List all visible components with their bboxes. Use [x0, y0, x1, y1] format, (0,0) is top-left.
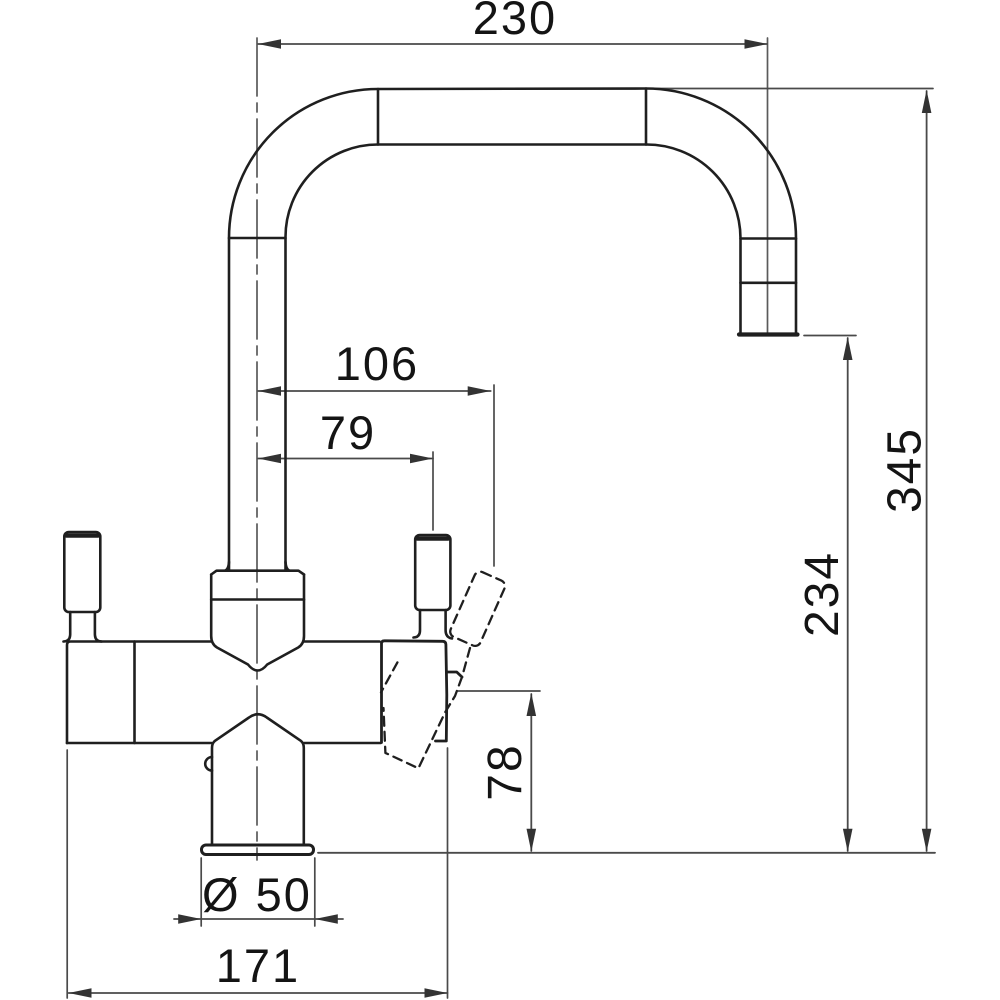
left handle knob [64, 532, 102, 642]
dimension 106 extension [493, 385, 495, 566]
dimension 78 line [530, 694, 532, 851]
body bottom edge left [67, 742, 212, 745]
dimension 345 line [926, 91, 928, 851]
body top edge left [67, 642, 211, 744]
extension lines diameter 50 [200, 858, 202, 926]
dimension 78 arrows [527, 693, 537, 852]
dimension 106 arrows [258, 386, 491, 396]
dimension 171 arrows [69, 988, 448, 998]
collar [211, 562, 304, 671]
left handle stem [64, 612, 71, 642]
svg-text:79: 79 [320, 406, 376, 459]
svg-text:78: 78 [479, 743, 532, 800]
centerline spout / 230 right extension [767, 38, 769, 334]
collar mid line [211, 598, 304, 601]
base pin [205, 757, 212, 771]
lever solid [382, 641, 463, 743]
dimension 171 extension left [66, 750, 68, 998]
svg-text:230: 230 [473, 0, 557, 44]
right handle knob [414, 535, 453, 639]
joint line spout lower [741, 281, 797, 284]
svg-text:234: 234 [796, 551, 849, 637]
dimension 345 arrows [922, 90, 932, 852]
base flange [202, 845, 314, 855]
dimension 106 line [258, 390, 491, 392]
spout tube outline [229, 89, 796, 571]
pipe flare left [225, 562, 229, 571]
extension line 234 [804, 335, 856, 337]
lever phantom grip (dashed) [381, 570, 507, 769]
joint line spout upper [741, 237, 797, 240]
base cone and cylinder [202, 714, 314, 854]
joint line top left [377, 89, 380, 145]
svg-text:345: 345 [879, 427, 932, 513]
svg-text:Ø 50: Ø 50 [202, 868, 312, 921]
dimension 171 extension right [447, 748, 449, 998]
lever phantom inner edge (dashed) [381, 662, 397, 692]
dimension 79 extension [432, 452, 434, 530]
dimension d50 line [174, 918, 343, 920]
body joint line [133, 642, 136, 744]
svg-text:106: 106 [335, 337, 419, 390]
baseline reference [318, 852, 935, 854]
dimension 171 line [69, 992, 448, 994]
svg-text:171: 171 [216, 939, 300, 992]
body bar [67, 642, 381, 744]
body bottom edge right [304, 742, 381, 745]
extension line 345 top [648, 88, 933, 90]
dimension 230 arrows [258, 39, 768, 49]
dimension 230 line [258, 43, 767, 45]
dimension 234 line [847, 338, 849, 851]
dimension 234 arrows [843, 337, 853, 852]
joint line top right [645, 89, 648, 145]
joint line left bend [229, 237, 286, 240]
dimension d50 arrows (outside) [178, 914, 338, 924]
extension line 78 [458, 690, 540, 692]
spout outlet face [739, 332, 798, 336]
dimension 79 arrows [258, 454, 433, 464]
pipe flare right [286, 562, 290, 571]
right handle stem [414, 610, 421, 638]
lever notch [447, 672, 463, 677]
lever phantom blade (dashed) [384, 648, 471, 768]
dimension 79 line [258, 458, 433, 460]
centerline main column [256, 38, 258, 860]
body top edge right [304, 640, 380, 643]
